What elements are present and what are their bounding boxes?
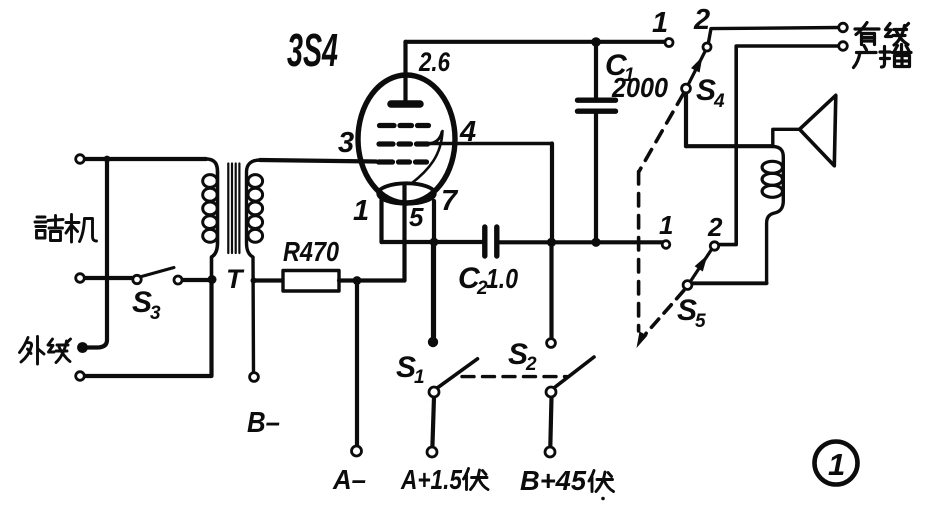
svg-text:3S4: 3S4 <box>287 24 338 76</box>
svg-text:2.6: 2.6 <box>418 47 451 77</box>
svg-text:T: T <box>226 264 245 294</box>
svg-text:2: 2 <box>707 212 723 242</box>
svg-text:A–: A– <box>332 464 366 495</box>
svg-text:1: 1 <box>624 65 635 86</box>
svg-text:S: S <box>508 338 528 371</box>
svg-text:3: 3 <box>150 303 161 324</box>
svg-text:2: 2 <box>525 354 537 375</box>
svg-text:1.0: 1.0 <box>486 263 518 294</box>
svg-text:1: 1 <box>353 195 369 227</box>
svg-text:1: 1 <box>414 367 425 388</box>
svg-text:3: 3 <box>338 127 354 159</box>
svg-text:5: 5 <box>695 311 706 332</box>
svg-text:B+45: B+45 <box>520 465 586 496</box>
svg-text:R470: R470 <box>283 236 339 267</box>
svg-text:B–: B– <box>247 407 280 439</box>
svg-text:5: 5 <box>409 202 424 232</box>
svg-text:1: 1 <box>659 210 673 240</box>
svg-text:2: 2 <box>693 4 710 36</box>
svg-text:4: 4 <box>459 116 476 148</box>
svg-text:1: 1 <box>828 447 845 482</box>
svg-text:S: S <box>132 286 152 319</box>
svg-text:A+1.5: A+1.5 <box>400 464 462 495</box>
svg-text:S: S <box>677 294 697 327</box>
svg-text:4: 4 <box>713 91 725 112</box>
svg-text:7: 7 <box>441 185 459 217</box>
svg-text:1: 1 <box>652 7 668 39</box>
svg-text:S: S <box>696 74 716 107</box>
svg-text:S: S <box>396 351 416 384</box>
